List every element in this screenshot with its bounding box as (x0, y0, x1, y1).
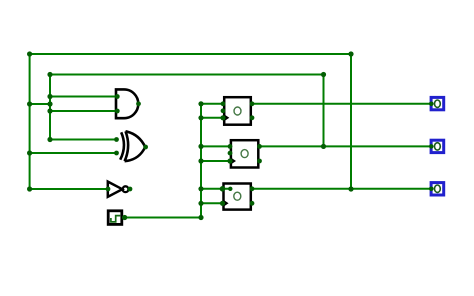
wire FF1 D stub (201, 103, 223, 105)
NOT gate G3 (108, 182, 129, 197)
pin FF1 Qbar (250, 115, 255, 120)
pin AND input 2 (115, 109, 120, 114)
pin FF2 Qbar (257, 159, 262, 164)
node corner A right (348, 51, 353, 56)
pin FF3 Q (250, 186, 255, 191)
output port O2 (431, 140, 444, 152)
pin FF2 clock (227, 158, 232, 163)
node corner B left (47, 72, 52, 77)
node corner clock bus (198, 215, 203, 220)
flip-flop FF2 (230, 140, 258, 167)
pin AND output (136, 101, 141, 106)
pin FF1 enable (221, 108, 226, 113)
pin FF2 D (228, 144, 233, 149)
pin FF2 Q (257, 144, 262, 149)
wire FF3 clock stub (201, 202, 223, 204)
pin FF1 D (221, 101, 226, 106)
wire mid vertical bus (49, 75, 51, 140)
wire XOR input 1 (50, 139, 117, 141)
pin NOT input (106, 187, 111, 192)
pin FF3 clock (220, 201, 225, 206)
pin FF3 D inner end (228, 187, 232, 191)
pin XOR input 2 (114, 151, 119, 156)
node corner NOT tap (27, 186, 32, 191)
node bus tap FF2 clock (198, 158, 203, 163)
node corner B right (321, 72, 326, 77)
wire FF2 Q to output O2 (260, 145, 431, 147)
wire clock output (122, 217, 201, 219)
node corner XOR1 tap (47, 137, 52, 142)
output port O3 (431, 183, 444, 195)
node corner A left (27, 51, 32, 56)
wire link left-to-mid (30, 103, 50, 105)
wire FF3 Q to output O3 (252, 188, 430, 190)
wire FF1 clock stub (201, 117, 223, 119)
wire net-B horizontal (50, 74, 324, 76)
pin XOR input 1 (114, 137, 119, 142)
wire NOT input (30, 188, 108, 190)
wire left vertical bus (29, 54, 31, 189)
node bus tap FF2 D (198, 144, 203, 149)
node bus tap FF1 clock (198, 115, 203, 120)
pin AND input 1 (115, 94, 120, 99)
wire XOR input 2 (30, 152, 117, 154)
AND gate G1 (116, 89, 138, 118)
node junction left link (27, 101, 32, 106)
node junction XOR2 tap (27, 150, 32, 155)
pin clock output (122, 215, 127, 220)
wire AND input 1 (50, 96, 117, 98)
wire FF2 D stub (201, 145, 230, 147)
node junction AND2 tap (47, 108, 52, 113)
pin FF1 clock (220, 115, 225, 120)
node junction A bottom (348, 186, 353, 191)
wire FF2 clock stub (201, 160, 230, 162)
flip-flop FF3 (223, 184, 251, 210)
pin output O2 (429, 144, 434, 149)
node bus tap FF3 D (198, 186, 203, 191)
wire clock vertical bus (200, 104, 202, 218)
node bus tap FF3 clock (198, 201, 203, 206)
wire net-B vertical (323, 75, 325, 147)
pin FF1 Q (250, 101, 255, 106)
XOR gate G2 (120, 131, 145, 161)
pin XOR output (143, 145, 148, 150)
pin FF3 D edge (220, 186, 226, 192)
node junction B bottom (321, 144, 326, 149)
node bus corner FF1 D (198, 101, 203, 106)
wire AND input 2 (50, 110, 117, 112)
pin FF3 Qbar (250, 201, 255, 206)
wire FF3 D stub (201, 188, 230, 190)
pin output O1 (429, 102, 434, 107)
pin NOT output (128, 187, 133, 192)
pin FF2 enable (228, 151, 233, 156)
wire net-A top horizontal (30, 53, 351, 55)
pin output O3 (429, 187, 434, 192)
output port O1 (431, 97, 444, 109)
node junction mid link (47, 101, 52, 106)
node junction AND1 tap (47, 94, 52, 99)
wire FF1 Q to output O1 (252, 103, 430, 105)
wire net-A right vertical (350, 54, 352, 189)
clock source CLK1 (108, 211, 122, 225)
flip-flop FF1 (223, 97, 251, 125)
